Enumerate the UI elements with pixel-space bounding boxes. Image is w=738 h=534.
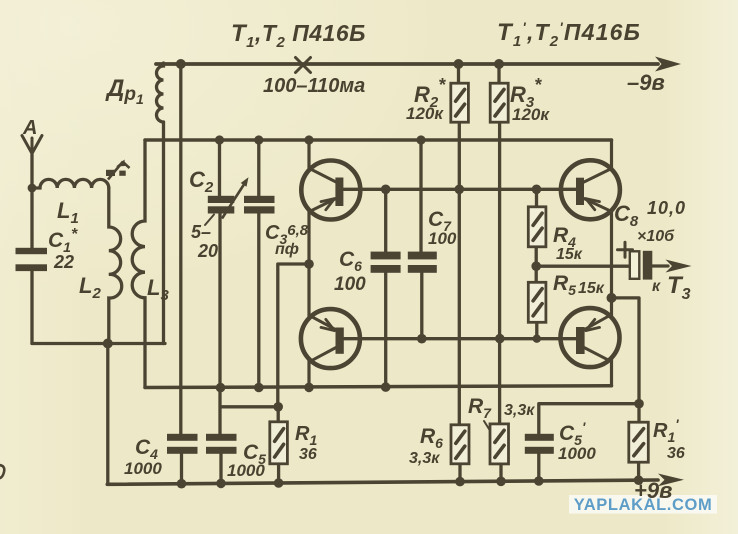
base wire T2-T2': [339, 337, 577, 340]
svg-text:пф: пф: [275, 241, 299, 258]
coil L1: [32, 179, 109, 188]
node dot rail3 C3: [254, 383, 264, 393]
resistor R2 slashes: [456, 89, 465, 116]
node dot base2 R5: [533, 335, 541, 343]
capacitor C5' plates: [525, 434, 554, 441]
rail -9v top: [156, 62, 658, 66]
wire R2 to R6 chain: [459, 64, 461, 482]
leader R7: [484, 421, 494, 437]
resistor R1 body: [270, 422, 288, 464]
node dot antenna L1: [28, 184, 37, 193]
resistor R1' body: [629, 422, 649, 462]
wire tank bottom: [32, 342, 165, 345]
resistor R1 slashes: [275, 429, 284, 457]
wire R4/R5 junction to C8: [536, 265, 630, 268]
wire emitter branch to R1': [612, 298, 640, 422]
svg-text:20: 20: [197, 241, 218, 261]
transistor T1 collector/emitter strokes: [310, 169, 337, 212]
wire R4 R5 chain: [535, 189, 539, 338]
wire C6: [384, 189, 387, 387]
arrow -9v: [655, 57, 681, 72]
capacitor C7 plates: [408, 252, 437, 260]
coil L2: [109, 188, 122, 344]
transistor T1' base bar: [576, 178, 584, 205]
svg-text:100: 100: [428, 229, 457, 248]
resistor R1' slashes: [634, 429, 644, 456]
wire T1'/T2' collector-emitter vertical (behind circles): [610, 140, 613, 386]
transistor T2 circle: [301, 309, 360, 368]
svg-text:5–: 5–: [191, 222, 211, 242]
capacitor C5 plates: [206, 434, 237, 441]
resistor R2 body: [451, 83, 469, 122]
resistor R4 slashes: [533, 213, 542, 240]
svg-text:15к: 15к: [578, 280, 605, 297]
wire C3 branch: [257, 140, 260, 388]
watermark yaplakal: [569, 495, 717, 514]
transistor T2 base bar: [336, 328, 344, 354]
wire rail1 to C4: [179, 64, 183, 484]
svg-text:3,3к: 3,3к: [504, 402, 535, 419]
transistor T1 base bar: [335, 178, 343, 207]
svg-text:1000: 1000: [227, 461, 265, 480]
node dot tank bottom L2: [103, 339, 113, 349]
variometer arrow L1: [106, 170, 115, 176]
arrow +9v: [658, 474, 684, 487]
node dot rail1 Dr1: [176, 59, 186, 69]
node dot rail4 C4: [177, 479, 187, 489]
resistor R6 body: [451, 425, 469, 464]
wire T1/T2 collector-emitter vertical (behind circles): [307, 140, 310, 387]
rail 3 emitter rail: [145, 386, 612, 388]
svg-text:36: 36: [299, 446, 317, 463]
capacitor C3 plates: [244, 196, 275, 203]
node dot base2 R3: [495, 334, 505, 344]
capacitor C1 plates: [16, 248, 48, 254]
node dot T1' emitter branch: [607, 293, 617, 303]
transistor T1 circle: [301, 161, 360, 220]
arrow C2 variable: [241, 177, 249, 187]
node dot rail4 R7: [496, 477, 506, 487]
svg-text:×10б: ×10б: [637, 228, 675, 245]
node dot rail4 R6: [455, 477, 465, 487]
current break mark x: [296, 58, 311, 73]
transistor T2' base bar: [576, 327, 585, 354]
svg-text:36: 36: [667, 445, 685, 462]
node dot rail3 C6: [381, 382, 391, 392]
capacitor C6 plates: [371, 252, 401, 260]
leader 5-20 to C2: [205, 215, 214, 226]
choke Dr1 coil: [157, 63, 164, 122]
plus sign C8: [618, 242, 633, 257]
wire C5 to R1 branch: [221, 405, 279, 408]
resistor R3 slashes: [495, 89, 504, 116]
wire C8 output: [652, 264, 668, 267]
antenna symbol: [22, 136, 42, 154]
rail +9v bottom: [107, 480, 658, 484]
node dot R4 R5 junction: [531, 261, 541, 271]
transistor T1' circle: [561, 160, 620, 219]
wire R3 to R7 chain: [499, 64, 501, 482]
node dot T1 emitter jog: [304, 259, 314, 269]
wire R1' bottom: [637, 462, 640, 481]
wire tank bottom left drop: [106, 344, 109, 485]
node dot base2 C7: [417, 334, 427, 344]
resistor R7 slashes: [495, 430, 504, 457]
node dot base1 R2: [455, 185, 465, 195]
transistor T2' collector/emitter strokes: [584, 315, 612, 362]
resistor R5 body: [528, 282, 546, 322]
wire Dr1 to tank bottom: [162, 122, 165, 344]
node dot rail3 T2: [304, 383, 314, 393]
node dot rail4 C5: [216, 479, 226, 489]
svg-text:100: 100: [334, 274, 366, 295]
svg-text:3,3к: 3,3к: [409, 450, 440, 467]
svg-text:к: к: [652, 278, 661, 295]
svg-text:15к: 15к: [556, 246, 583, 263]
resistor R3 body: [490, 83, 508, 122]
node dot rail4 C5': [534, 476, 544, 486]
variometer arrow line: [108, 162, 130, 180]
capacitor C8 left plate: [630, 251, 640, 278]
base wire T1-T1': [339, 188, 577, 191]
wire C5' top branch: [539, 404, 639, 434]
svg-text:22: 22: [53, 252, 74, 272]
node dot R1 top junction: [273, 402, 283, 412]
wire C5' bottom: [537, 454, 540, 482]
node dot base1 C6: [381, 185, 391, 195]
node dot rail3 C5: [216, 383, 226, 393]
resistor R7 body: [490, 424, 509, 464]
transistor T1' collector/emitter strokes: [584, 169, 612, 212]
resistor R5 slashes: [533, 289, 542, 316]
svg-text:+9в: +9в: [634, 478, 672, 503]
svg-text:1000: 1000: [124, 459, 162, 478]
C2 variable arrow line: [222, 181, 247, 219]
svg-text:10,0: 10,0: [647, 198, 686, 218]
transistor T2 collector/emitter strokes: [310, 316, 337, 362]
wire C5 bottom: [219, 454, 222, 484]
capacitor C8 right plate: [643, 251, 653, 280]
transistor T2' circle: [561, 308, 620, 367]
arrow C8 output to T3: [666, 260, 692, 273]
node dot rail1 R2: [454, 59, 464, 69]
svg-text:–9в: –9в: [627, 70, 665, 95]
node dot rail2 T1: [304, 135, 313, 144]
edge squiggle: [0, 465, 4, 479]
capacitor C2 plates: [208, 196, 235, 203]
svg-text:А: А: [22, 117, 37, 139]
wire C7: [419, 140, 423, 339]
rail 2 tank top: [145, 138, 612, 142]
node dot base1 R4: [532, 185, 542, 195]
svg-text:100–110ма: 100–110ма: [263, 75, 365, 97]
wire R1 bottom: [277, 464, 280, 483]
resistor R4 body: [528, 207, 546, 247]
node dot rail2 C2: [215, 135, 224, 144]
node dot rail2 C3: [254, 135, 263, 144]
wire T1 emitter jog to R1: [278, 264, 309, 422]
coil L3: [132, 140, 145, 388]
node dot rail4 R1': [634, 475, 644, 485]
node dot rail4 R1: [274, 478, 284, 488]
node dot rail2 C7: [416, 135, 425, 144]
node dot rail1 R3: [494, 59, 504, 69]
svg-text:1000: 1000: [558, 444, 596, 463]
capacitor C4 plates: [167, 434, 198, 441]
svg-text:120к: 120к: [512, 105, 550, 124]
antenna lead: [30, 154, 33, 344]
resistor R6 slashes: [456, 431, 465, 458]
node dot C5' R1' junction: [634, 399, 644, 409]
svg-text:120к: 120к: [406, 104, 444, 123]
wire C2 branch: [218, 140, 222, 434]
